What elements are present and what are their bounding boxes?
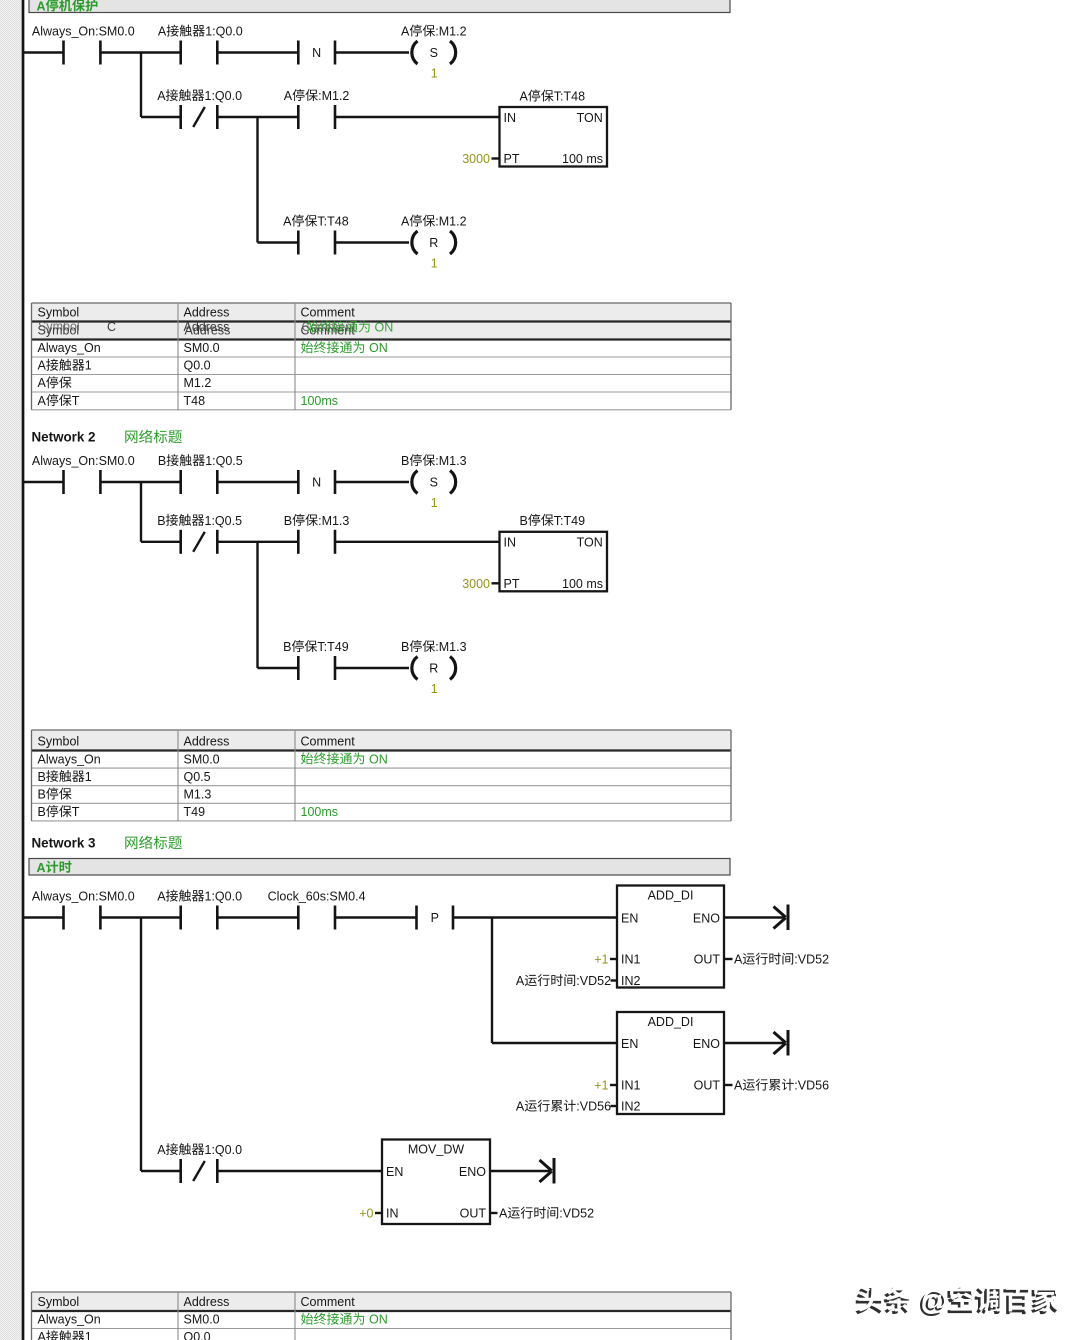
- IN pin wire: [375, 1212, 382, 1214]
- svg-text:T: T: [72, 394, 80, 408]
- svg-text:100ms: 100ms: [301, 394, 339, 408]
- svg-text:R: R: [429, 662, 438, 676]
- wire: [335, 667, 409, 669]
- svg-text:Always_On:SM0.0: Always_On:SM0.0: [32, 25, 135, 39]
- contact B停保T:T49 (net2 rung3): [283, 640, 349, 680]
- svg-text:ENO: ENO: [693, 1037, 720, 1051]
- svg-text:Always_On: Always_On: [38, 1313, 101, 1327]
- branch junction to rung 3: [256, 117, 258, 243]
- svg-text:ON: ON: [366, 1313, 388, 1327]
- svg-text:OUT: OUT: [460, 1207, 487, 1221]
- svg-text:B: B: [38, 788, 46, 802]
- branch junction to net2 rung 2: [140, 482, 142, 542]
- svg-text:100 ms: 100 ms: [562, 577, 603, 591]
- svg-text:Always_On: Always_On: [38, 752, 101, 766]
- svg-text:T: T: [72, 805, 80, 819]
- svg-text:1: 1: [85, 1330, 92, 1340]
- svg-text::VD52: :VD52: [576, 974, 611, 988]
- svg-text:B: B: [283, 640, 291, 654]
- svg-text:TON: TON: [577, 111, 603, 125]
- svg-text:Comment: Comment: [301, 735, 356, 749]
- svg-text:Address: Address: [184, 1295, 230, 1309]
- svg-text:SM0.0: SM0.0: [184, 752, 220, 766]
- svg-text:S: S: [430, 46, 438, 60]
- network 2 header: [32, 430, 182, 445]
- svg-text::VD52: :VD52: [559, 1207, 594, 1221]
- svg-text:T:T49: T:T49: [554, 514, 585, 528]
- svg-text:A: A: [499, 1207, 508, 1221]
- svg-text:OUT: OUT: [694, 953, 721, 967]
- svg-text:Address: Address: [184, 735, 230, 749]
- set coil S B停保:M1.3: [401, 454, 467, 510]
- wire rail to contact 1 (net2): [24, 481, 64, 483]
- svg-text:OUT: OUT: [694, 1079, 721, 1093]
- contact Clock_60s:SM0.4: [268, 890, 366, 930]
- svg-text:IN2: IN2: [621, 1100, 641, 1114]
- IN1 pin wire: [610, 1084, 617, 1086]
- svg-text:@: @: [921, 1284, 948, 1315]
- contact Always_On:SM0.0 (rung1): [32, 25, 135, 65]
- wire: [335, 481, 409, 483]
- svg-text:MOV_DW: MOV_DW: [408, 1143, 464, 1157]
- ADD_DI block 1: [617, 886, 724, 989]
- branch junction to rung 2: [140, 53, 142, 118]
- symbol table network 1: [32, 303, 732, 410]
- network 1 comment bar A停机保护: [29, 0, 730, 13]
- svg-text:ADD_DI: ADD_DI: [648, 889, 694, 903]
- wire: [141, 1170, 181, 1172]
- svg-text:Network 2: Network 2: [32, 430, 96, 445]
- svg-text::M1.3: :M1.3: [435, 454, 466, 468]
- svg-text:Comment: Comment: [301, 306, 356, 320]
- rung terminator arrow 2: [724, 1030, 788, 1056]
- svg-text:A: A: [734, 953, 743, 967]
- contact B接触器1:Q0.5 (net2 rung1): [158, 454, 243, 494]
- svg-text:Address: Address: [184, 306, 230, 320]
- svg-text:IN1: IN1: [621, 953, 641, 967]
- svg-text:B: B: [38, 770, 46, 784]
- svg-text:A: A: [157, 1143, 166, 1157]
- svg-text:1:Q0.0: 1:Q0.0: [205, 25, 243, 39]
- contact Always_On:SM0.0 (net3): [32, 890, 135, 930]
- svg-text:ON: ON: [371, 321, 393, 335]
- svg-text:1: 1: [431, 682, 438, 696]
- svg-text:Always_On: Always_On: [38, 341, 101, 355]
- svg-text:1: 1: [431, 257, 438, 271]
- wire: [217, 541, 298, 543]
- svg-text:A: A: [37, 861, 46, 875]
- svg-text:SM0.0: SM0.0: [184, 1313, 220, 1327]
- svg-text:1:Q0.0: 1:Q0.0: [205, 1143, 243, 1157]
- wire rail to contact 1: [24, 51, 64, 53]
- svg-text::M1.2: :M1.2: [435, 25, 466, 39]
- symbol table network 2: [32, 730, 732, 821]
- svg-text:ADD_DI: ADD_DI: [648, 1015, 694, 1029]
- svg-text:Symbol: Symbol: [38, 306, 80, 320]
- OUT pin wire: [724, 958, 733, 960]
- contact A接触器1:Q0.0 normally-closed (rung2): [157, 89, 242, 129]
- wire: [217, 481, 298, 483]
- svg-text:100ms: 100ms: [301, 805, 339, 819]
- svg-text:R: R: [429, 236, 438, 250]
- left gutter strip: [0, 0, 21, 1340]
- MOV_DW block: [382, 1140, 490, 1225]
- contact B停保:M1.3 (net2 rung2): [284, 514, 350, 554]
- svg-text:100 ms: 100 ms: [562, 152, 603, 166]
- wire: [335, 51, 409, 53]
- svg-text:Network 3: Network 3: [32, 836, 96, 851]
- wire: [100, 51, 180, 53]
- svg-text:IN: IN: [504, 536, 517, 550]
- ADD_DI block 2: [617, 1012, 724, 1114]
- timer box B停保T:T49 TON: [500, 514, 608, 592]
- svg-text::M1.2: :M1.2: [318, 89, 349, 103]
- svg-text:1:Q0.5: 1:Q0.5: [205, 454, 243, 468]
- svg-text:Q0.0: Q0.0: [184, 1330, 211, 1340]
- svg-text:B: B: [158, 454, 166, 468]
- set coil S A停保:M1.2: [401, 25, 467, 81]
- svg-text:P: P: [431, 911, 439, 925]
- wire: [100, 481, 180, 483]
- svg-text:+1: +1: [594, 953, 608, 967]
- svg-text:Clock_60s:SM0.4: Clock_60s:SM0.4: [268, 890, 366, 904]
- wire to ADD_DI 2: [492, 1042, 617, 1044]
- svg-text:Symbol: Symbol: [38, 320, 80, 334]
- svg-text:B: B: [401, 640, 409, 654]
- svg-text:PT: PT: [504, 152, 520, 166]
- network 3 comment bar A计时: [29, 859, 730, 876]
- svg-text:A: A: [158, 25, 167, 39]
- svg-text:1:Q0.0: 1:Q0.0: [205, 890, 243, 904]
- svg-text:A: A: [520, 90, 529, 104]
- svg-text:Comment: Comment: [301, 1295, 356, 1309]
- contact A接触器1:Q0.0 (net3): [157, 890, 242, 930]
- svg-text:Address: Address: [185, 324, 231, 338]
- wire to TON box: [335, 541, 500, 543]
- svg-text:EN: EN: [621, 912, 638, 926]
- svg-text:PT: PT: [504, 577, 520, 591]
- svg-text:B: B: [520, 514, 528, 528]
- svg-text:T49: T49: [184, 805, 206, 819]
- svg-text:EN: EN: [386, 1165, 403, 1179]
- wire to MOV_DW: [217, 1170, 382, 1172]
- svg-text:N: N: [312, 46, 321, 60]
- wire: [217, 116, 298, 118]
- svg-text:1: 1: [85, 770, 92, 784]
- rung terminator arrow 3: [490, 1158, 554, 1184]
- svg-text:Q0.0: Q0.0: [184, 359, 211, 373]
- svg-text:IN2: IN2: [621, 974, 641, 988]
- wire: [258, 667, 299, 669]
- wire rail to contact (net3): [24, 916, 64, 918]
- OUT pin wire: [490, 1212, 498, 1214]
- timer box A停保T:T48 TON: [500, 90, 608, 167]
- svg-text:+1: +1: [594, 1079, 608, 1093]
- svg-text::VD52: :VD52: [794, 953, 829, 967]
- PT pin wire: [492, 582, 500, 584]
- svg-text::M1.3: :M1.3: [318, 514, 349, 528]
- svg-text:IN: IN: [386, 1207, 399, 1221]
- svg-text:Q0.5: Q0.5: [184, 770, 211, 784]
- contact A接触器1:Q0.0 (rung1): [158, 25, 243, 65]
- svg-text::M1.2: :M1.2: [435, 215, 466, 229]
- svg-text:Symbol: Symbol: [38, 735, 80, 749]
- OUT pin wire: [724, 1084, 733, 1086]
- IN1 pin wire: [610, 958, 617, 960]
- svg-text:IN: IN: [504, 111, 517, 125]
- PT pin wire: [492, 157, 500, 159]
- svg-text:3000: 3000: [462, 577, 490, 591]
- svg-text::VD56: :VD56: [576, 1100, 611, 1114]
- svg-text:EN: EN: [621, 1037, 638, 1051]
- wire: [217, 51, 298, 53]
- svg-text:B: B: [157, 514, 165, 528]
- svg-text:+0: +0: [359, 1207, 373, 1221]
- svg-text:3000: 3000: [462, 152, 490, 166]
- svg-text:S: S: [430, 476, 438, 490]
- N negative-edge contact (rung1): [298, 41, 335, 65]
- wire to ADD_DI 1: [453, 916, 617, 918]
- svg-text:A: A: [38, 1330, 47, 1340]
- branch junction to ADD_DI 2: [491, 918, 493, 1044]
- svg-text:1: 1: [85, 359, 92, 373]
- contact B接触器1:Q0.5 normally-closed (net2 rung2): [157, 514, 242, 554]
- wire: [100, 916, 180, 918]
- P positive-edge contact: [417, 906, 454, 930]
- symbol table network 3 (cropped): [32, 1292, 732, 1340]
- contact Always_On:SM0.0 (net2 rung1): [32, 454, 135, 494]
- contact A停保T:T48 (rung3): [283, 215, 349, 255]
- svg-text:A: A: [284, 89, 293, 103]
- svg-text:ENO: ENO: [459, 1165, 486, 1179]
- svg-text:TON: TON: [577, 536, 603, 550]
- wire: [217, 916, 298, 918]
- svg-text:Symbol: Symbol: [38, 1295, 80, 1309]
- svg-text:N: N: [312, 476, 321, 490]
- reset coil R A停保:M1.2: [401, 215, 467, 271]
- svg-text:A: A: [401, 215, 410, 229]
- wire to TON box: [335, 116, 500, 118]
- svg-text::VD56: :VD56: [794, 1079, 829, 1093]
- svg-text:A: A: [401, 25, 410, 39]
- svg-text:1:Q0.0: 1:Q0.0: [205, 89, 243, 103]
- svg-text:C: C: [107, 320, 116, 334]
- left power rail: [22, 0, 25, 1340]
- network 3 header: [32, 836, 182, 851]
- contact A停保:M1.2 (rung2): [284, 89, 350, 129]
- svg-text:Always_On:SM0.0: Always_On:SM0.0: [32, 890, 135, 904]
- wire: [141, 116, 181, 118]
- reset coil R B停保:M1.3: [401, 640, 467, 696]
- contact A接触器1:Q0.0 normally-closed (MOV rung): [157, 1143, 242, 1183]
- svg-text:SM0.0: SM0.0: [184, 341, 220, 355]
- rung terminator arrow 1: [724, 905, 788, 931]
- svg-text:ON: ON: [366, 752, 388, 766]
- branch junction to MOV_DW rung: [140, 918, 142, 1172]
- svg-text:A: A: [38, 394, 47, 408]
- svg-text:A: A: [157, 890, 166, 904]
- svg-text:B: B: [38, 805, 46, 819]
- wire: [258, 241, 299, 243]
- svg-text:A: A: [38, 359, 47, 373]
- IN2 pin wire: [611, 979, 618, 981]
- svg-text:B: B: [401, 454, 409, 468]
- svg-text:1: 1: [431, 67, 438, 81]
- N negative-edge contact (net2): [298, 470, 335, 494]
- wire: [335, 241, 409, 243]
- wire: [335, 916, 417, 918]
- svg-text:T:T48: T:T48: [554, 90, 585, 104]
- svg-text:A: A: [516, 1100, 525, 1114]
- svg-text:A: A: [516, 974, 525, 988]
- svg-text:IN1: IN1: [621, 1079, 641, 1093]
- svg-text::M1.3: :M1.3: [435, 640, 466, 654]
- branch junction to net2 rung 3: [256, 542, 258, 668]
- svg-text:T:T49: T:T49: [317, 640, 348, 654]
- svg-text:1:Q0.5: 1:Q0.5: [205, 514, 243, 528]
- wire: [141, 541, 181, 543]
- IN2 pin wire: [611, 1105, 618, 1107]
- svg-text:A: A: [37, 0, 46, 13]
- svg-text:ENO: ENO: [693, 912, 720, 926]
- svg-text:M1.3: M1.3: [184, 788, 212, 802]
- svg-text:T:T48: T:T48: [317, 215, 348, 229]
- svg-text:ON: ON: [366, 341, 388, 355]
- svg-text:A: A: [38, 376, 47, 390]
- svg-text:B: B: [284, 514, 292, 528]
- svg-text:A: A: [157, 89, 166, 103]
- watermark 头条@空调百家: [855, 1284, 1059, 1318]
- svg-text:A: A: [283, 215, 292, 229]
- svg-text:A: A: [734, 1079, 743, 1093]
- svg-text:1: 1: [431, 496, 438, 510]
- svg-text:M1.2: M1.2: [184, 376, 212, 390]
- svg-text:T48: T48: [184, 394, 206, 408]
- svg-text:Always_On:SM0.0: Always_On:SM0.0: [32, 454, 135, 468]
